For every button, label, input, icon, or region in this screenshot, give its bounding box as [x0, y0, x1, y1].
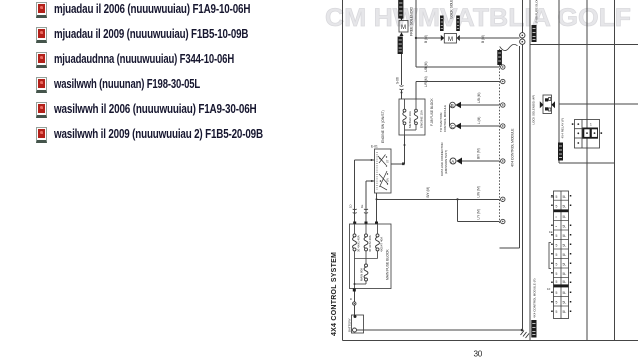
svg-text:L/B (M): L/B (M) [477, 93, 481, 103]
wire fuse METER 10A to engine switch [404, 135, 406, 164]
joint connector J/C (two bullets) [521, 0, 523, 33]
svg-text:M: M [448, 37, 453, 43]
svg-text:LOCK SOLENOID (4P): LOCK SOLENOID (4P) [532, 95, 536, 125]
svg-text:L/B (M): L/B (M) [424, 62, 428, 72]
link row 6 [32, 127, 34, 143]
svg-text:1: 1 [590, 123, 592, 127]
main fuse block input pins [353, 222, 356, 225]
wire battery negative to ground [357, 329, 523, 331]
svg-text:5: 5 [556, 263, 558, 267]
svg-text:E-01: E-01 [371, 145, 378, 149]
svg-text:L/Y (M): L/Y (M) [477, 209, 481, 219]
reference grid frame [529, 0, 531, 341]
svg-text:5L: 5L [563, 225, 567, 229]
wire engine switch output [376, 193, 378, 222]
svg-text:B (M): B (M) [424, 35, 428, 43]
svg-text:5L: 5L [563, 205, 567, 209]
wire flex link joint connector to module [500, 44, 518, 50]
svg-text:1E: 1E [549, 230, 553, 234]
svg-text:5L: 5L [563, 263, 567, 267]
svg-text:5: 5 [556, 280, 558, 284]
svg-text:5L: 5L [563, 215, 567, 219]
connector pin table 4X4 CONTROL MODULE [554, 191, 569, 319]
svg-text:TO TRACTION: TO TRACTION [439, 113, 443, 132]
svg-text:B: B [349, 298, 353, 300]
svg-text:(EMISSION TEST): (EMISSION TEST) [444, 150, 448, 174]
svg-text:5: 5 [556, 195, 558, 199]
svg-text:5L: 5L [563, 310, 567, 314]
svg-text:5L: 5L [563, 253, 567, 257]
ground symbol [521, 329, 524, 332]
schematic bottom border [343, 340, 638, 342]
module U1 pins 1-7 [501, 65, 505, 224]
svg-text:MAIN FUSE BLOCK: MAIN FUSE BLOCK [386, 249, 390, 280]
wire B (M) lock solenoid to joint connector [457, 37, 520, 39]
svg-text:5L: 5L [563, 234, 567, 238]
svg-text:S-06: S-06 [396, 77, 400, 84]
svg-text:30 4X41 40A: 30 4X41 40A [357, 235, 361, 252]
solenoid L2 LOCK SOLENOID [441, 35, 445, 41]
connector label E4(X)-01 (free solenoid) [398, 0, 403, 19]
svg-text:FREE SOLENOID: FREE SOLENOID [410, 6, 414, 36]
svg-text:L/W (M): L/W (M) [477, 186, 481, 197]
svg-text:MAIN 80A: MAIN 80A [360, 268, 364, 281]
svg-text:5L: 5L [563, 244, 567, 248]
fuse box F-08 with fuses METER 10A and ENGINE 15A [399, 99, 425, 135]
svg-text:1D: 1D [349, 204, 353, 208]
svg-text:1D: 1D [551, 195, 555, 199]
pin group bracket and row labels [549, 243, 551, 269]
svg-text:CM HWMVATBLIA GOLF: CM HWMVATBLIA GOLF [325, 4, 631, 32]
pin table terminal marks [551, 195, 571, 312]
svg-text:5: 5 [556, 244, 558, 248]
svg-text:30: 30 [474, 350, 483, 359]
link row 1 [32, 2, 34, 18]
connector labels E4(X)-02 (lock solenoid) [440, 16, 444, 32]
svg-text:5L: 5L [563, 301, 567, 305]
wire battery positive feed with bullet connector [353, 289, 356, 292]
svg-text:4X5/4T 40A: 4X5/4T 40A [380, 237, 384, 252]
link row 5 [32, 102, 34, 118]
wire B/Y (M) switch to module pin 6 [377, 198, 500, 200]
svg-text:B: B [451, 103, 454, 108]
svg-text:5: 5 [556, 291, 558, 295]
link row 4 [32, 77, 34, 93]
wire L/B (M) to module pin 1 [416, 66, 500, 68]
inline splices 1D / 1E [353, 209, 357, 213]
svg-text:L/R (M): L/R (M) [424, 76, 428, 87]
svg-text:5: 5 [556, 253, 558, 257]
fuse MAIN 80A [365, 264, 368, 267]
svg-text:B/Y (M): B/Y (M) [477, 148, 481, 159]
svg-text:5L: 5L [563, 280, 567, 284]
link row 3 [32, 52, 34, 68]
svg-text:B/Y (M): B/Y (M) [426, 187, 430, 198]
pin table wire codes [556, 195, 567, 314]
wire B+ feed vertical [415, 0, 417, 67]
svg-text:4X4 RELAY (F): 4X4 RELAY (F) [561, 118, 565, 139]
svg-text:5: 5 [556, 234, 558, 238]
svg-text:5: 5 [556, 272, 558, 276]
svg-text:•: • [556, 215, 558, 219]
svg-text:ENGINE SW (ON/ST): ENGINE SW (ON/ST) [381, 110, 385, 143]
fuse block MAIN FUSE BLOCK with fuses 40A [350, 224, 392, 289]
svg-text:5: 5 [556, 310, 558, 314]
svg-text:A: A [451, 159, 454, 164]
svg-text:•: • [556, 225, 558, 229]
svg-text:1F: 1F [547, 287, 551, 291]
svg-text:4X4 CONTROL MODULE: 4X4 CONTROL MODULE [511, 128, 515, 167]
terminals B and C to traction control module [450, 102, 456, 108]
svg-text:METER 10A: METER 10A [408, 110, 412, 128]
svg-text:4X4 CONTROL MODULE (F): 4X4 CONTROL MODULE (F) [533, 279, 537, 318]
schematic left border [342, 0, 344, 341]
svg-text:ENGINE 15A: ENGINE 15A [420, 109, 424, 128]
svg-text:B (M): B (M) [481, 35, 485, 43]
svg-text:L (M): L (M) [477, 117, 481, 124]
svg-text:F-08 FUSE BLOCK: F-08 FUSE BLOCK [535, 0, 539, 23]
connector label F-08 FUSE BLOCK [532, 25, 537, 42]
svg-text:5: 5 [556, 301, 558, 305]
svg-text:CONTROL MODULE: CONTROL MODULE [443, 105, 447, 132]
wires engine switch to main fuse block [355, 159, 375, 161]
module U1 4X4 CONTROL MODULE [499, 49, 501, 223]
svg-text:M: M [401, 25, 406, 31]
svg-text:LOCK SOLENOID: LOCK SOLENOID [450, 0, 454, 19]
switch SW1 ENGINE SW [375, 149, 392, 193]
svg-text:5: 5 [556, 205, 558, 209]
wire L/Y (M) branch to module pin 7 [457, 199, 459, 221]
svg-text:5L: 5L [563, 195, 567, 199]
svg-text:1E: 1E [360, 204, 364, 208]
battery BAT [352, 315, 364, 333]
svg-text:DATA LINK CONNECTOR: DATA LINK CONNECTOR [440, 142, 444, 176]
svg-text:F-08 FUSE BLOCK: F-08 FUSE BLOCK [430, 97, 434, 126]
svg-text:ST: ST [386, 159, 390, 163]
link row 2 [32, 27, 34, 43]
wire free solenoid to fuse block (with inline splice S-06) [401, 54, 403, 85]
relay K1 4X4 RELAY pin layout [575, 120, 600, 149]
watermark [325, 4, 631, 32]
svg-text:5L: 5L [563, 272, 567, 276]
wire L/R (M) to module pin 2 [416, 81, 500, 83]
svg-text:BATTERY: BATTERY [348, 318, 352, 332]
svg-text:5L: 5L [563, 291, 567, 295]
svg-text:30 4X72 40A: 30 4X72 40A [368, 235, 372, 252]
wire B (M) to lock solenoid [416, 37, 442, 39]
svg-text:4X4 CONTROL SYSTEM: 4X4 CONTROL SYSTEM [331, 252, 338, 336]
solenoid L1 FREE SOLENOID [400, 17, 404, 21]
